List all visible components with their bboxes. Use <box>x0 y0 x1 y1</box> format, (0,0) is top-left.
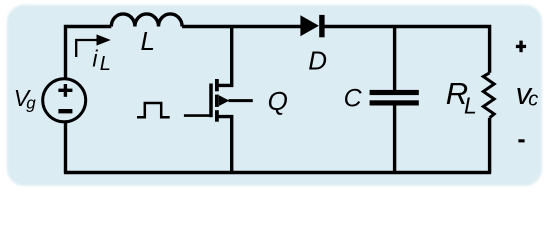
transistor Q channel dash top <box>215 79 219 91</box>
transistor Q channel dash middle <box>215 95 219 107</box>
resistor RL (zigzag) <box>483 73 494 118</box>
svg-text:L: L <box>464 92 477 118</box>
wire: top rail, diode cathode to top-right corner (through node B) <box>323 27 490 73</box>
inductor L (3 humps) <box>111 14 182 27</box>
gate drive pulse symbol <box>137 103 170 117</box>
svg-text:D: D <box>308 46 327 76</box>
wire: left rail lower segment (Vg to bottom rail) <box>64 122 67 172</box>
output plus polarity mark <box>516 45 526 48</box>
wire: bottom rail <box>64 171 491 174</box>
svg-text:Q: Q <box>268 86 288 116</box>
wire: capacitor top lead <box>393 27 396 91</box>
output minus polarity mark <box>518 139 524 142</box>
capacitor C plates <box>370 90 419 95</box>
transistor Q gate lead <box>184 114 211 117</box>
wire: left rail upper segment and top rail to inductor <box>66 27 112 79</box>
wire: capacitor bottom lead <box>393 105 396 172</box>
Vg minus terminal mark <box>58 109 72 113</box>
svg-text:L: L <box>100 53 111 75</box>
transistor Q body arrow <box>219 95 229 106</box>
Vg plus terminal mark <box>58 89 72 92</box>
current arrow iL <box>76 40 99 57</box>
diode D <box>300 15 319 36</box>
transistor Q channel dash bottom <box>215 110 219 122</box>
wire: top rail, inductor to diode anode (through drain node) <box>182 25 301 28</box>
transistor Q drain lead to top rail <box>215 27 232 86</box>
voltage source Vg <box>43 79 86 122</box>
svg-text:L: L <box>141 26 155 56</box>
transistor Q gate bar <box>209 84 213 118</box>
svg-text:i: i <box>92 45 98 71</box>
svg-text:c: c <box>528 89 538 111</box>
wire: right rail lower segment (RL to bottom rail) <box>488 118 491 173</box>
transistor Q source lead to bottom rail <box>215 117 232 173</box>
svg-text:g: g <box>26 93 36 112</box>
svg-text:C: C <box>344 84 363 112</box>
